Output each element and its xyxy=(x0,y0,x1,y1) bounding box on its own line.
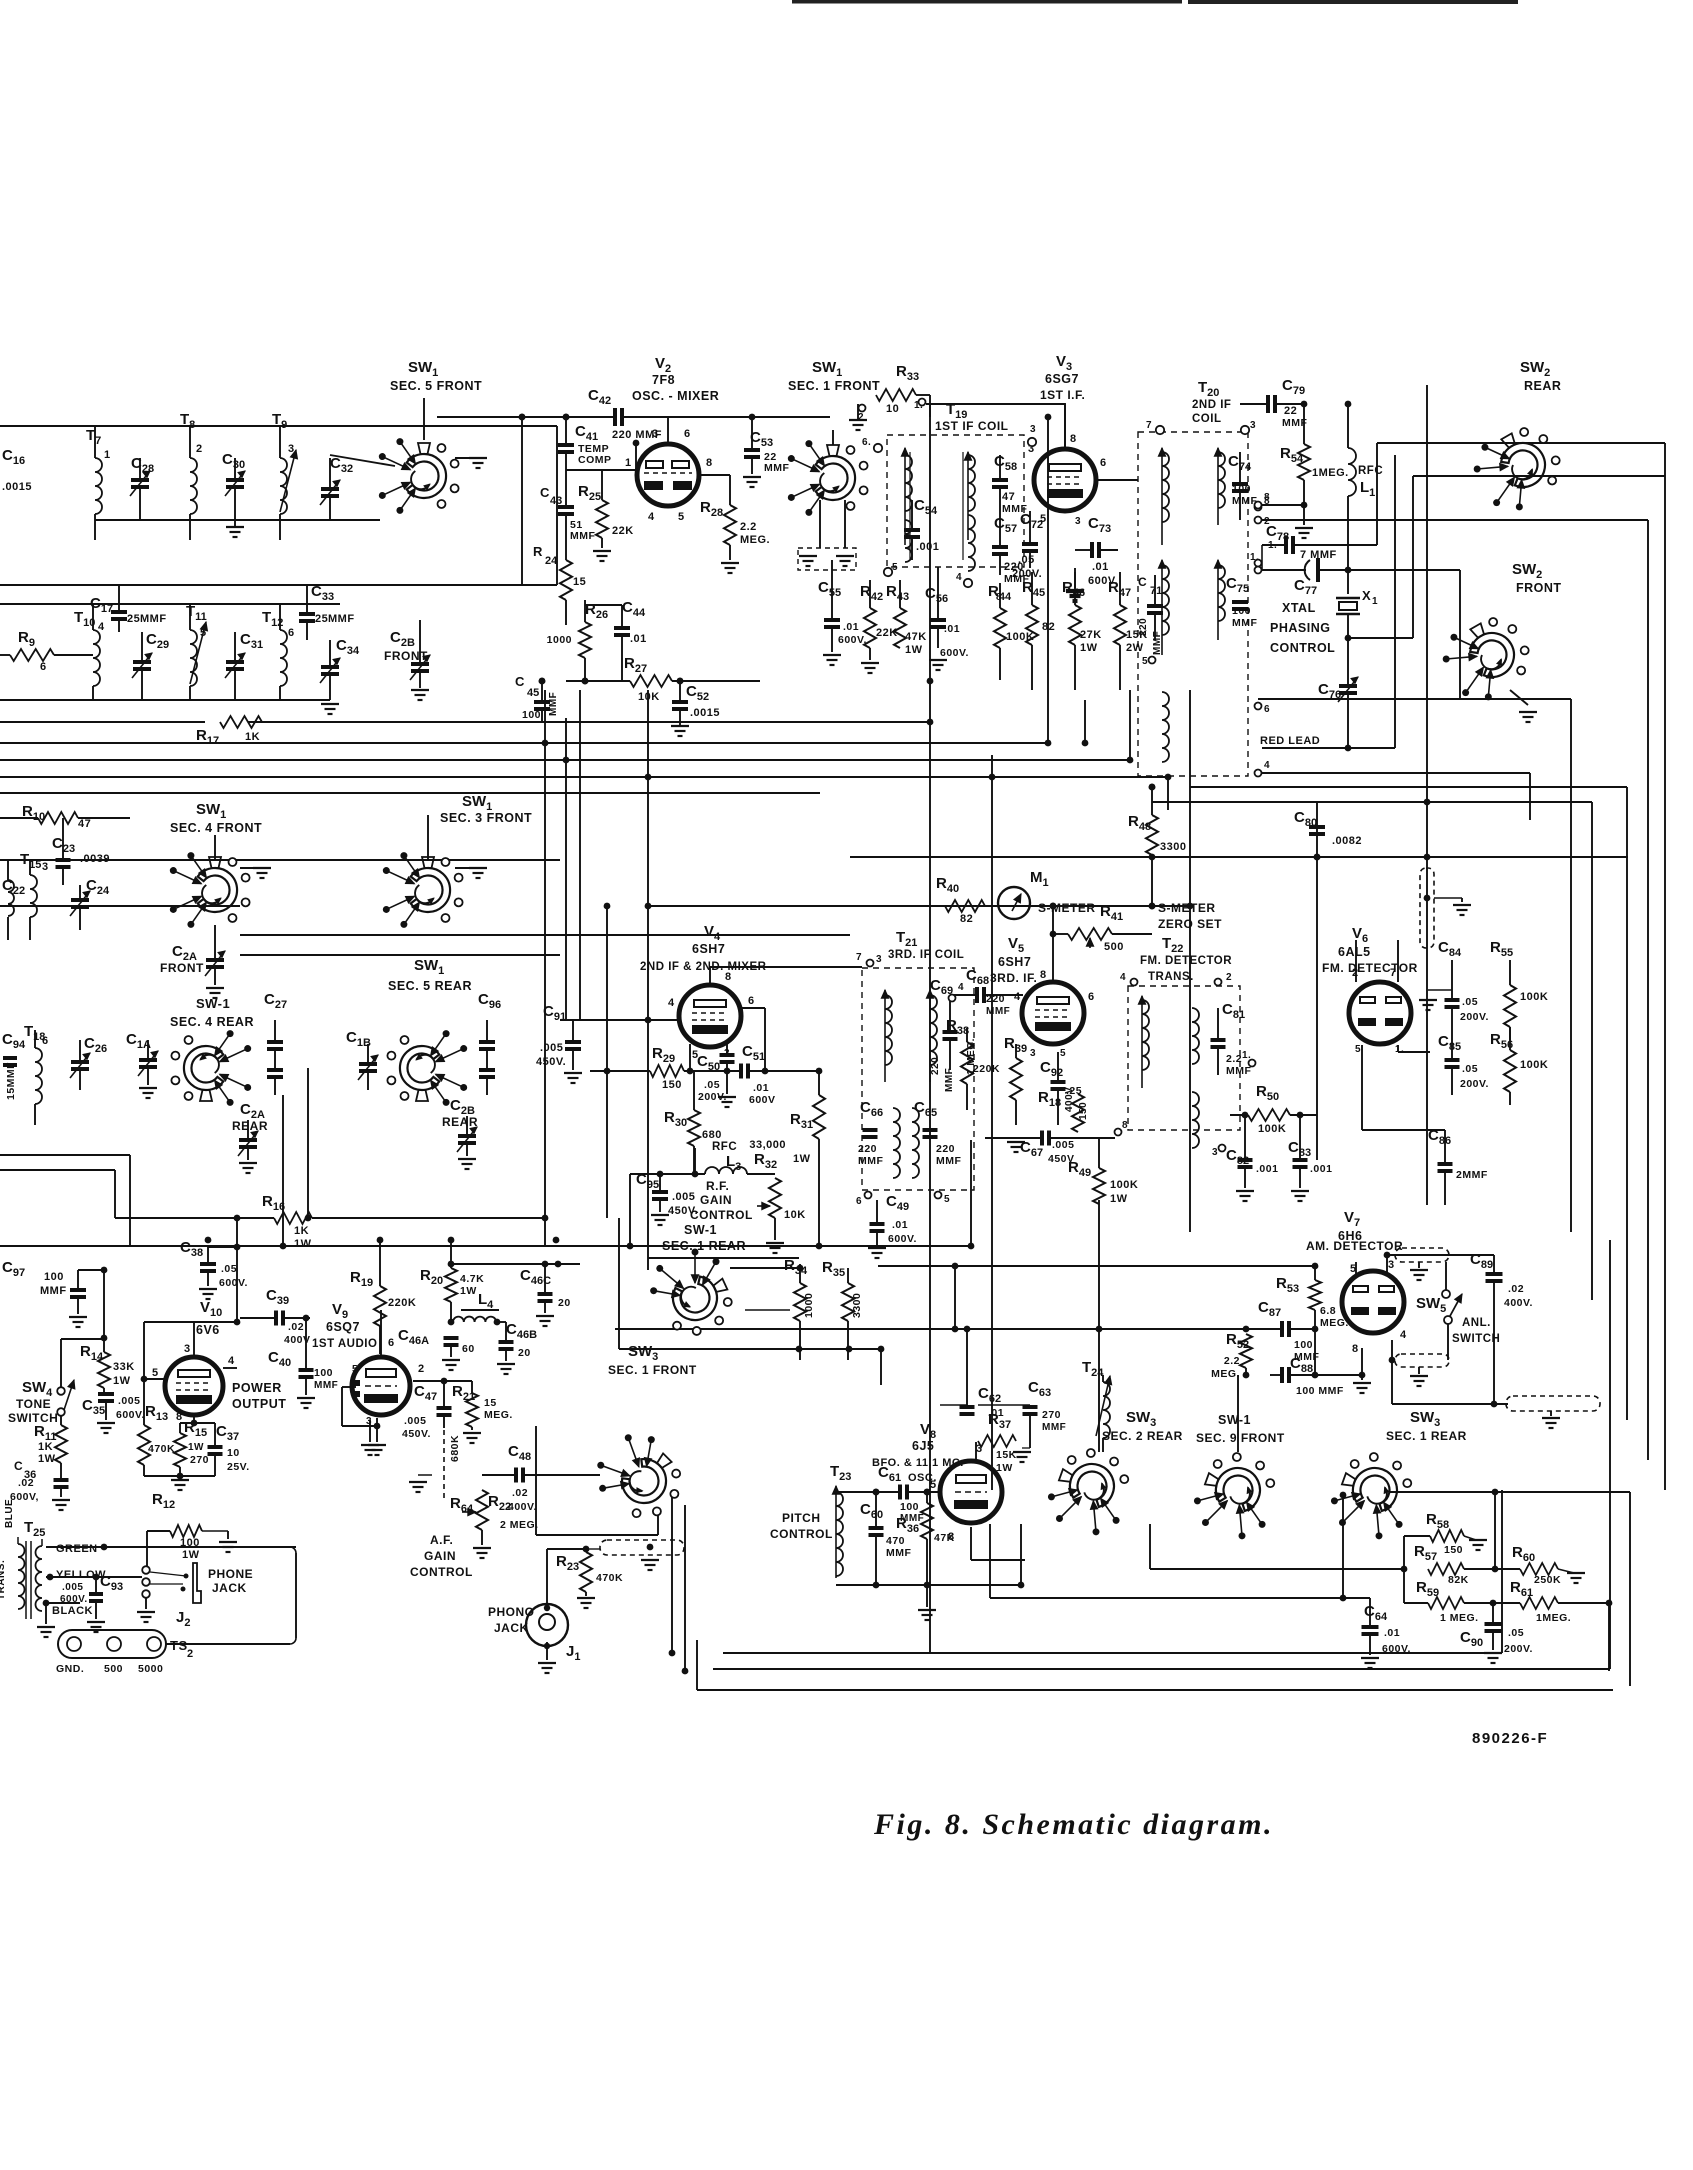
svg-text:100K: 100K xyxy=(1110,1179,1138,1191)
svg-text:1W: 1W xyxy=(182,1549,200,1561)
svg-text:7: 7 xyxy=(1146,420,1152,431)
svg-text:220: 220 xyxy=(858,1143,877,1155)
svg-text:47K: 47K xyxy=(934,1532,955,1544)
svg-text:1W: 1W xyxy=(38,1453,56,1465)
svg-text:SEC. 1 REAR: SEC. 1 REAR xyxy=(1386,1429,1467,1443)
svg-text:CONTROL: CONTROL xyxy=(1270,641,1335,655)
svg-text:600V.: 600V. xyxy=(1382,1643,1411,1655)
svg-text:C: C xyxy=(14,1459,23,1473)
svg-text:15MMF: 15MMF xyxy=(5,1062,17,1100)
svg-text:20: 20 xyxy=(518,1347,531,1359)
svg-text:250K: 250K xyxy=(1534,1574,1561,1586)
svg-text:22K: 22K xyxy=(876,627,898,639)
svg-text:X: X xyxy=(1362,588,1371,603)
svg-text:.005: .005 xyxy=(540,1042,563,1054)
svg-text:600V.: 600V. xyxy=(219,1277,248,1289)
svg-text:6: 6 xyxy=(748,995,755,1007)
svg-text:10: 10 xyxy=(227,1447,240,1459)
svg-text:270: 270 xyxy=(190,1454,209,1466)
svg-text:SW-1: SW-1 xyxy=(684,1223,717,1237)
svg-text:SEC. 3 FRONT: SEC. 3 FRONT xyxy=(440,811,532,825)
svg-text:8: 8 xyxy=(706,457,713,469)
svg-text:4: 4 xyxy=(1264,760,1270,771)
svg-text:400V.: 400V. xyxy=(508,1501,537,1513)
svg-text:22K: 22K xyxy=(612,525,634,537)
svg-text:MMF: MMF xyxy=(1152,631,1163,655)
svg-text:C: C xyxy=(540,485,550,500)
svg-text:1000: 1000 xyxy=(547,634,572,646)
svg-text:BLUE: BLUE xyxy=(4,1499,15,1528)
svg-text:.05: .05 xyxy=(221,1263,237,1275)
svg-text:S-METER: S-METER xyxy=(1158,901,1216,915)
svg-text:680K: 680K xyxy=(449,1435,461,1462)
svg-text:.05: .05 xyxy=(1508,1627,1524,1639)
svg-text:4: 4 xyxy=(958,982,964,993)
svg-text:MMF: MMF xyxy=(328,613,355,625)
svg-text:GAIN: GAIN xyxy=(424,1549,456,1563)
svg-text:600V.: 600V. xyxy=(116,1409,145,1421)
svg-text:4: 4 xyxy=(1014,991,1021,1003)
svg-text:RED LEAD: RED LEAD xyxy=(1260,735,1320,747)
svg-text:4: 4 xyxy=(1400,1329,1407,1341)
svg-text:1K: 1K xyxy=(38,1441,53,1453)
svg-text:.01: .01 xyxy=(988,1407,1004,1419)
svg-text:MMF: MMF xyxy=(40,1285,67,1297)
svg-text:6AL5: 6AL5 xyxy=(1338,945,1371,959)
svg-text:.0015: .0015 xyxy=(2,481,32,493)
svg-text:20: 20 xyxy=(558,1297,571,1309)
svg-text:.05: .05 xyxy=(1462,1063,1478,1075)
svg-text:COMP: COMP xyxy=(578,454,612,466)
svg-text:6SG7: 6SG7 xyxy=(1045,372,1079,386)
svg-text:3: 3 xyxy=(1212,1147,1218,1158)
svg-text:6.: 6. xyxy=(862,437,871,448)
svg-text:5: 5 xyxy=(944,1194,950,1205)
svg-text:SW-1: SW-1 xyxy=(196,996,230,1011)
svg-text:890226-F: 890226-F xyxy=(1472,1730,1548,1747)
svg-text:ANL.: ANL. xyxy=(1462,1317,1491,1329)
svg-text:MEG.: MEG. xyxy=(1320,1317,1349,1329)
svg-text:.01: .01 xyxy=(753,1082,769,1094)
svg-text:3: 3 xyxy=(1250,420,1256,431)
svg-text:3RD. IF COIL: 3RD. IF COIL xyxy=(888,949,964,961)
svg-text:JACK: JACK xyxy=(212,1581,247,1595)
svg-text:3: 3 xyxy=(1075,516,1081,527)
svg-text:PITCH: PITCH xyxy=(782,1511,821,1525)
svg-text:.0039: .0039 xyxy=(80,853,110,865)
svg-text:1W: 1W xyxy=(1110,1193,1128,1205)
svg-text:MMF: MMF xyxy=(140,613,167,625)
svg-text:RFC: RFC xyxy=(712,1141,737,1153)
svg-text:1.: 1. xyxy=(1250,552,1259,563)
svg-text:.01: .01 xyxy=(892,1219,908,1231)
svg-text:3: 3 xyxy=(1030,1048,1036,1059)
svg-text:.01: .01 xyxy=(843,621,859,633)
svg-text:FM. DETECTOR: FM. DETECTOR xyxy=(1322,961,1418,975)
svg-text:45: 45 xyxy=(527,687,539,699)
svg-text:1W: 1W xyxy=(905,644,923,656)
svg-text:100K: 100K xyxy=(1520,1059,1548,1071)
svg-text:10: 10 xyxy=(886,403,899,415)
svg-text:MMF: MMF xyxy=(936,1155,961,1167)
svg-text:SW-1: SW-1 xyxy=(1218,1413,1251,1427)
svg-text:SEC. 4 REAR: SEC. 4 REAR xyxy=(170,1015,254,1029)
svg-text:100: 100 xyxy=(1294,1339,1313,1351)
svg-text:470: 470 xyxy=(886,1535,905,1547)
svg-text:200V.: 200V. xyxy=(1460,1078,1489,1090)
svg-text:R.F.: R.F. xyxy=(706,1179,729,1193)
svg-text:1.: 1. xyxy=(1242,1050,1251,1061)
svg-text:3: 3 xyxy=(1388,1259,1395,1271)
svg-text:SEC. 2 REAR: SEC. 2 REAR xyxy=(1102,1429,1183,1443)
svg-text:1ST IF COIL: 1ST IF COIL xyxy=(935,419,1009,433)
svg-text:1000: 1000 xyxy=(803,1293,815,1318)
svg-text:220: 220 xyxy=(1004,561,1024,573)
svg-text:6: 6 xyxy=(856,1196,862,1207)
svg-text:680: 680 xyxy=(702,1129,722,1141)
svg-text:220K: 220K xyxy=(388,1297,416,1309)
svg-text:6: 6 xyxy=(1100,457,1107,469)
svg-text:450V.: 450V. xyxy=(402,1428,431,1440)
svg-text:24: 24 xyxy=(545,555,558,567)
svg-text:SEC. 9 FRONT: SEC. 9 FRONT xyxy=(1196,1431,1285,1445)
svg-text:1W: 1W xyxy=(996,1462,1013,1474)
svg-text:47: 47 xyxy=(1002,491,1015,503)
svg-text:MMF: MMF xyxy=(1042,1422,1066,1433)
svg-text:.05: .05 xyxy=(704,1079,720,1091)
svg-text:1 MEG.: 1 MEG. xyxy=(1440,1612,1479,1624)
svg-text:.02: .02 xyxy=(18,1477,34,1489)
svg-text:REAR: REAR xyxy=(1524,379,1561,393)
svg-text:15K: 15K xyxy=(996,1449,1017,1461)
svg-text:2: 2 xyxy=(858,412,864,423)
svg-text:FRONT: FRONT xyxy=(1516,581,1562,595)
svg-text:2W: 2W xyxy=(1126,642,1144,654)
svg-text:8: 8 xyxy=(176,1411,183,1423)
svg-text:MMF: MMF xyxy=(1226,1065,1251,1077)
svg-text:MMF: MMF xyxy=(858,1155,883,1167)
svg-text:400V.: 400V. xyxy=(1504,1297,1533,1309)
svg-text:GAIN: GAIN xyxy=(700,1193,732,1207)
svg-text:SEC. 1 REAR: SEC. 1 REAR xyxy=(662,1239,746,1253)
svg-text:1MEG.: 1MEG. xyxy=(1312,467,1349,479)
svg-text:1W: 1W xyxy=(188,1442,204,1453)
svg-text:6SH7: 6SH7 xyxy=(692,942,725,956)
svg-text:.001: .001 xyxy=(1256,1163,1278,1175)
svg-text:1W: 1W xyxy=(460,1285,477,1297)
svg-text:7F8: 7F8 xyxy=(652,373,675,387)
svg-text:10K: 10K xyxy=(784,1209,806,1221)
svg-text:100: 100 xyxy=(522,709,541,721)
svg-text:GREEN: GREEN xyxy=(56,1543,98,1555)
svg-text:SEC. 4 FRONT: SEC. 4 FRONT xyxy=(170,821,262,835)
svg-text:600V.: 600V. xyxy=(940,647,969,659)
svg-text:.02: .02 xyxy=(512,1487,528,1499)
svg-text:2 MEG.: 2 MEG. xyxy=(500,1519,539,1531)
svg-text:3300: 3300 xyxy=(851,1293,863,1318)
svg-text:47K: 47K xyxy=(905,631,927,643)
svg-text:25: 25 xyxy=(315,613,328,625)
svg-text:5: 5 xyxy=(892,562,898,573)
svg-text:5: 5 xyxy=(1060,1048,1066,1059)
svg-text:1MEG.: 1MEG. xyxy=(1536,1612,1571,1624)
svg-text:100: 100 xyxy=(314,1367,333,1379)
svg-text:33,000: 33,000 xyxy=(749,1139,786,1151)
svg-text:2: 2 xyxy=(187,1648,193,1660)
svg-text:1: 1 xyxy=(104,449,111,461)
svg-text:60: 60 xyxy=(462,1343,475,1355)
svg-text:6SH7: 6SH7 xyxy=(998,955,1031,969)
svg-text:.005: .005 xyxy=(1052,1139,1074,1151)
svg-text:2ND IF: 2ND IF xyxy=(1192,399,1231,411)
svg-text:C: C xyxy=(1138,575,1147,589)
svg-text:2.2: 2.2 xyxy=(740,521,757,533)
svg-text:TONE: TONE xyxy=(16,1397,51,1411)
svg-text:4: 4 xyxy=(228,1355,235,1367)
svg-text:200V.: 200V. xyxy=(1504,1643,1533,1655)
svg-text:100: 100 xyxy=(1232,483,1251,495)
svg-text:500: 500 xyxy=(104,1663,123,1675)
svg-text:6V6: 6V6 xyxy=(196,1323,220,1337)
svg-text:MEG.: MEG. xyxy=(1211,1368,1240,1380)
svg-text:82K: 82K xyxy=(1448,1574,1469,1586)
svg-text:4.7K: 4.7K xyxy=(460,1273,484,1285)
svg-text:PHONE: PHONE xyxy=(208,1567,253,1581)
svg-text:100: 100 xyxy=(44,1271,64,1283)
svg-text:6: 6 xyxy=(42,1035,49,1047)
svg-text:5: 5 xyxy=(930,1479,937,1491)
svg-text:SEC. 5 REAR: SEC. 5 REAR xyxy=(388,979,472,993)
svg-text:1W: 1W xyxy=(113,1375,131,1387)
svg-text:1ST I.F.: 1ST I.F. xyxy=(1040,388,1085,402)
svg-text:4: 4 xyxy=(956,572,962,583)
svg-text:.005: .005 xyxy=(118,1395,140,1407)
svg-text:MMF: MMF xyxy=(764,462,789,474)
svg-text:1.: 1. xyxy=(1395,1044,1404,1055)
svg-text:.01: .01 xyxy=(630,633,647,645)
svg-text:.02: .02 xyxy=(1508,1283,1524,1295)
svg-text:5000: 5000 xyxy=(138,1663,163,1675)
svg-text:MMF: MMF xyxy=(548,692,559,716)
svg-text:100K: 100K xyxy=(1006,631,1034,643)
svg-text:150: 150 xyxy=(1078,1102,1089,1120)
svg-text:3: 3 xyxy=(42,861,49,873)
svg-text:82: 82 xyxy=(960,913,973,925)
svg-text:SEC. 5 FRONT: SEC. 5 FRONT xyxy=(390,379,482,393)
svg-text:8: 8 xyxy=(1070,433,1077,445)
svg-text:ZERO SET: ZERO SET xyxy=(1158,917,1222,931)
svg-text:6: 6 xyxy=(1264,704,1270,715)
svg-text:82: 82 xyxy=(1042,621,1055,633)
svg-text:RFC: RFC xyxy=(1358,465,1383,477)
svg-text:4: 4 xyxy=(648,511,655,523)
svg-text:.001: .001 xyxy=(916,541,939,553)
svg-text:.01: .01 xyxy=(944,623,960,635)
svg-text:2.2: 2.2 xyxy=(1226,1053,1242,1065)
svg-text:200V.: 200V. xyxy=(1460,1011,1489,1023)
svg-text:2: 2 xyxy=(1226,972,1232,983)
svg-text:33K: 33K xyxy=(113,1361,135,1373)
svg-text:8: 8 xyxy=(1040,969,1047,981)
svg-text:15: 15 xyxy=(484,1397,497,1409)
svg-text:2: 2 xyxy=(196,443,203,455)
svg-text:150: 150 xyxy=(662,1079,682,1091)
svg-text:470K: 470K xyxy=(596,1572,623,1584)
svg-text:JACK: JACK xyxy=(494,1621,529,1635)
svg-text:4: 4 xyxy=(98,621,105,633)
svg-text:25: 25 xyxy=(127,613,140,625)
svg-text:TS: TS xyxy=(170,1638,188,1653)
svg-text:4: 4 xyxy=(668,997,675,1009)
svg-text:600V.: 600V. xyxy=(838,634,867,646)
svg-text:470K: 470K xyxy=(148,1443,175,1455)
svg-text:8: 8 xyxy=(1122,1120,1128,1131)
svg-text:3: 3 xyxy=(876,954,882,965)
svg-text:MMF: MMF xyxy=(314,1380,338,1391)
svg-text:6.8: 6.8 xyxy=(1320,1305,1336,1317)
svg-text:CONTROL: CONTROL xyxy=(770,1527,833,1541)
svg-text:REAR: REAR xyxy=(442,1115,478,1129)
svg-text:5: 5 xyxy=(152,1367,159,1379)
svg-text:3RD. IF.: 3RD. IF. xyxy=(990,971,1037,985)
svg-text:5: 5 xyxy=(1142,656,1148,667)
svg-text:220: 220 xyxy=(930,1057,941,1075)
svg-text:4: 4 xyxy=(1120,972,1126,983)
svg-text:5: 5 xyxy=(1355,1044,1361,1055)
svg-text:OSC. - MIXER: OSC. - MIXER xyxy=(632,389,719,403)
svg-text:6: 6 xyxy=(388,1337,395,1349)
svg-text:.001: .001 xyxy=(1310,1163,1332,1175)
svg-text:150: 150 xyxy=(1444,1544,1463,1556)
svg-text:47: 47 xyxy=(78,818,91,830)
svg-text:MMF: MMF xyxy=(1002,503,1027,515)
svg-text:100K: 100K xyxy=(1258,1123,1286,1135)
svg-text:6: 6 xyxy=(288,627,295,639)
svg-text:6: 6 xyxy=(40,661,47,673)
svg-text:SEC. 1 FRONT: SEC. 1 FRONT xyxy=(608,1363,697,1377)
svg-text:2.2: 2.2 xyxy=(1224,1355,1240,1367)
svg-text:FM. DETECTOR: FM. DETECTOR xyxy=(1140,955,1232,967)
svg-text:Fig. 8. Schematic diagram.: Fig. 8. Schematic diagram. xyxy=(873,1808,1274,1841)
svg-text:3300: 3300 xyxy=(1160,841,1186,853)
svg-text:XTAL: XTAL xyxy=(1282,601,1316,615)
svg-text:MMF: MMF xyxy=(944,1068,955,1092)
svg-text:TRANS.: TRANS. xyxy=(1148,971,1194,983)
svg-text:S-METER: S-METER xyxy=(1038,901,1096,915)
svg-text:BLACK: BLACK xyxy=(52,1605,93,1617)
svg-text:.01: .01 xyxy=(1384,1627,1400,1639)
svg-text:GND.: GND. xyxy=(56,1663,84,1675)
svg-text:COIL: COIL xyxy=(1192,413,1221,425)
svg-text:6: 6 xyxy=(684,428,691,440)
svg-text:2ND IF & 2ND. MIXER: 2ND IF & 2ND. MIXER xyxy=(640,961,767,973)
svg-text:7: 7 xyxy=(856,952,862,963)
svg-text:100K: 100K xyxy=(1520,991,1548,1003)
svg-text:25V.: 25V. xyxy=(227,1461,250,1473)
svg-text:8: 8 xyxy=(1352,1343,1359,1355)
svg-text:1ST AUDIO: 1ST AUDIO xyxy=(312,1338,377,1350)
svg-text:220: 220 xyxy=(936,1143,955,1155)
svg-text:8: 8 xyxy=(1264,492,1270,503)
svg-text:600V: 600V xyxy=(749,1094,776,1106)
svg-text:MEG.: MEG. xyxy=(740,534,770,546)
svg-text:.0082: .0082 xyxy=(1332,835,1362,847)
svg-text:600V.: 600V. xyxy=(888,1233,917,1245)
svg-text:1K: 1K xyxy=(245,731,260,743)
svg-text:100: 100 xyxy=(180,1537,200,1549)
svg-text:PHASING: PHASING xyxy=(1270,621,1330,635)
svg-text:22: 22 xyxy=(1284,405,1297,417)
svg-text:.02: .02 xyxy=(288,1321,304,1333)
svg-text:270: 270 xyxy=(1042,1409,1061,1421)
svg-text:A.F.: A.F. xyxy=(430,1533,453,1547)
svg-text:6SQ7: 6SQ7 xyxy=(326,1320,360,1334)
svg-text:220K: 220K xyxy=(973,1063,1000,1075)
svg-text:MEG.: MEG. xyxy=(484,1409,513,1421)
svg-text:.005: .005 xyxy=(62,1582,83,1593)
svg-text:FRONT: FRONT xyxy=(384,649,428,663)
svg-text:R: R xyxy=(533,544,543,559)
svg-text:27K: 27K xyxy=(1080,629,1102,641)
svg-text:MMF: MMF xyxy=(886,1547,911,1559)
svg-text:500: 500 xyxy=(1104,941,1124,953)
svg-text:MMF: MMF xyxy=(1232,617,1257,629)
svg-text:8: 8 xyxy=(725,971,732,983)
svg-text:1K: 1K xyxy=(294,1225,309,1237)
svg-text:6J5: 6J5 xyxy=(912,1439,934,1453)
svg-text:POWER: POWER xyxy=(232,1381,282,1395)
svg-text:1W: 1W xyxy=(1080,642,1098,654)
svg-text:2: 2 xyxy=(418,1363,425,1375)
svg-text:REAR: REAR xyxy=(232,1119,268,1133)
svg-text:220: 220 xyxy=(1138,618,1149,636)
svg-text:3: 3 xyxy=(184,1343,191,1355)
svg-text:5: 5 xyxy=(678,511,685,523)
svg-text:CONTROL: CONTROL xyxy=(410,1565,473,1579)
svg-text:1W: 1W xyxy=(294,1238,312,1250)
svg-text:10K: 10K xyxy=(638,691,660,703)
svg-text:450V.: 450V. xyxy=(536,1056,566,1068)
svg-text:C: C xyxy=(515,674,525,689)
svg-text:100: 100 xyxy=(900,1501,919,1513)
svg-text:15: 15 xyxy=(573,576,586,588)
svg-text:OUTPUT: OUTPUT xyxy=(232,1397,286,1411)
svg-text:3: 3 xyxy=(652,428,659,440)
svg-text:100 MMF: 100 MMF xyxy=(1296,1385,1344,1397)
svg-text:71: 71 xyxy=(1150,585,1162,597)
svg-text:7: 7 xyxy=(1390,967,1397,979)
svg-text:5: 5 xyxy=(352,1364,358,1375)
svg-text:400V: 400V xyxy=(1064,1087,1075,1112)
svg-text:100: 100 xyxy=(1232,605,1251,617)
svg-text:SEC. 1 FRONT: SEC. 1 FRONT xyxy=(788,379,880,393)
svg-text:.01: .01 xyxy=(1092,561,1109,573)
svg-text:3: 3 xyxy=(1030,424,1036,435)
svg-text:FRONT: FRONT xyxy=(160,961,204,975)
svg-text:1: 1 xyxy=(625,457,632,469)
svg-text:6: 6 xyxy=(1088,991,1095,1003)
svg-text:.05: .05 xyxy=(1462,996,1478,1008)
svg-text:CONTROL: CONTROL xyxy=(690,1208,753,1222)
svg-text:.005: .005 xyxy=(672,1191,695,1203)
svg-text:MMF: MMF xyxy=(986,1006,1010,1017)
svg-text:AM. DETECTOR: AM. DETECTOR xyxy=(1306,1239,1403,1253)
svg-text:.005: .005 xyxy=(404,1415,426,1427)
svg-text:TRANS.: TRANS. xyxy=(0,1560,7,1600)
svg-text:.0015: .0015 xyxy=(690,707,720,719)
svg-text:1: 1 xyxy=(1372,596,1378,607)
svg-text:2MMF: 2MMF xyxy=(1456,1169,1488,1181)
